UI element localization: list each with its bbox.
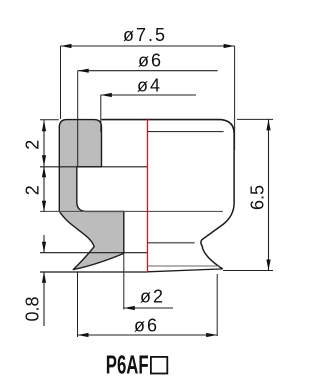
svg-text:6.5: 6.5 — [248, 185, 268, 210]
lip bottom rim right half — [148, 269, 223, 272]
svg-text:2: 2 — [23, 185, 43, 195]
title option box — [151, 357, 167, 374]
ledge edge + 2mm extension line — [40, 166, 148, 168]
top edge extension stub left — [40, 119, 59, 121]
dimension ø7.5 line — [61, 45, 235, 47]
cavity top edge left half + 0.8 extension line — [40, 252, 148, 254]
svg-text:ø2: ø2 — [140, 287, 165, 307]
title P6AF — [106, 350, 149, 380]
ø4 extension line — [100, 95, 102, 132]
svg-text:ø6: ø6 — [138, 51, 163, 71]
lip bottom rim left half + 0.8 extension line — [40, 271, 148, 273]
ø2 extension line — [123, 253, 125, 309]
part cross-section left half (gray fill) — [59, 120, 124, 270]
dimension ø6 (bottom) line — [78, 334, 218, 336]
dimension ø4 line — [101, 94, 196, 96]
dimension 6.5 — [237, 118, 273, 120]
ø6 bottom extension lines — [77, 273, 79, 338]
fitting bottom edge + 2mm extension line — [40, 210, 223, 212]
centerline (red) — [147, 119, 149, 272]
svg-text:ø7.5: ø7.5 — [123, 25, 167, 45]
right side outline and neck curve down to lip tip — [201, 133, 234, 268]
dimension 0.8 (outside arrows) — [43, 235, 45, 252]
svg-text:2: 2 — [23, 140, 43, 150]
inner ledge edge (right half) — [148, 131, 224, 133]
pad cavity rim edge (right half) — [148, 242, 195, 244]
dimension ø2 line — [124, 307, 173, 309]
svg-text:ø6: ø6 — [134, 316, 159, 336]
svg-text:P6AF: P6AF — [106, 350, 149, 380]
top face edge — [102, 120, 235, 134]
ø7.5 extension lines — [60, 46, 62, 119]
lip inner bottom edge (right half) — [148, 265, 220, 267]
ø6 top extension line — [77, 71, 79, 166]
svg-text:ø4: ø4 — [137, 76, 162, 96]
svg-text:0.8: 0.8 — [22, 296, 42, 321]
dimension ø6 (top) line — [78, 70, 218, 72]
